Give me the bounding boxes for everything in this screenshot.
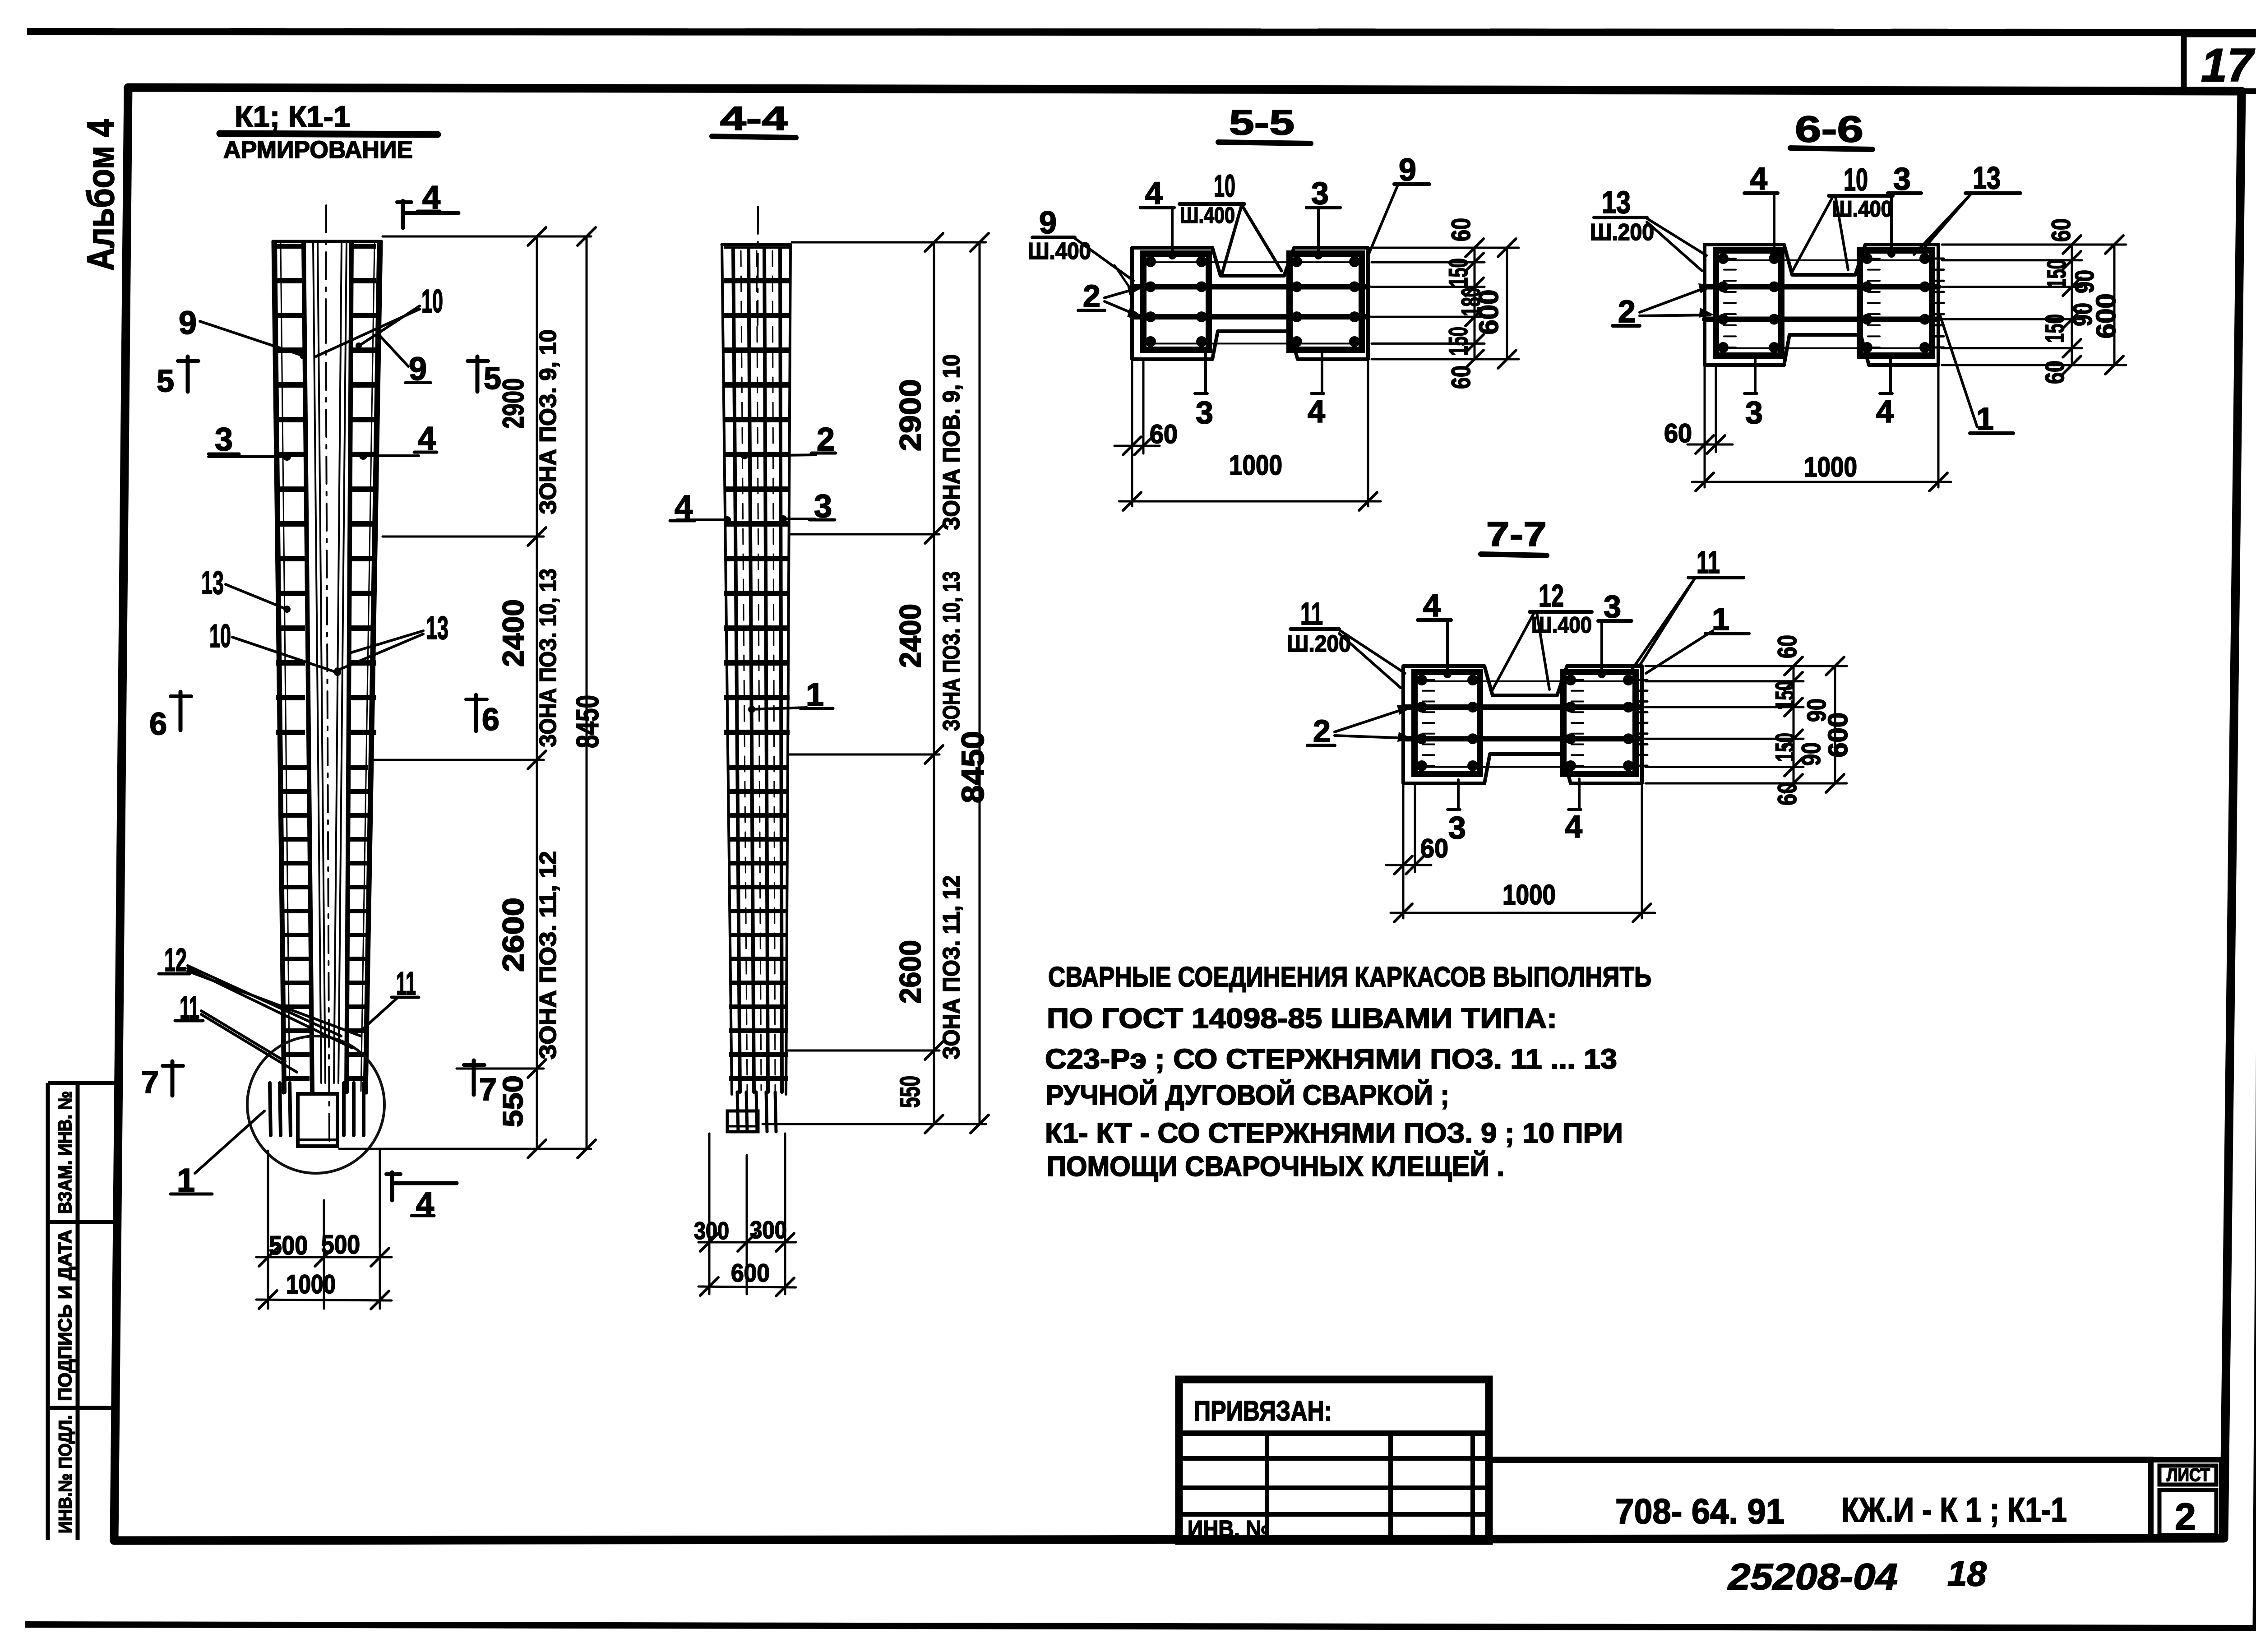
node dim-chain-K1 : dimension line 2900/2400/2600/550 <box>536 236 538 1149</box>
node dim-600 : overall 600 <box>1506 248 1508 359</box>
component stirrup-right : right stirrup <box>1860 250 1932 356</box>
wire : outer bottom border line <box>25 1624 2256 1628</box>
svg-text:9: 9 <box>179 305 197 341</box>
node dim-60-77 : cover 60 bottom left <box>1402 785 1405 918</box>
svg-text:ВЗАМ. ИНВ. №: ВЗАМ. ИНВ. № <box>54 1091 75 1214</box>
svg-text:5: 5 <box>157 363 174 398</box>
svg-text:Ш.400: Ш.400 <box>1832 196 1892 222</box>
svg-text:3: 3 <box>1196 395 1213 430</box>
svg-text:150: 150 <box>1444 258 1473 287</box>
svg-text:КЖ.И - К 1 ; К1-1: КЖ.И - К 1 ; К1-1 <box>1841 1491 2067 1529</box>
node flag-5-right : section 5 mark <box>476 356 480 392</box>
svg-text:3: 3 <box>1893 161 1911 196</box>
node rebar-dots : bar cross-sections <box>1145 256 1156 267</box>
svg-text:1000: 1000 <box>1229 450 1282 481</box>
svg-text:11: 11 <box>1697 545 1720 580</box>
node column-K1 : reinforcement elevation of column K1 <box>273 241 283 1093</box>
svg-text:13: 13 <box>201 565 224 601</box>
wire : inner longitudinal bars <box>313 243 321 1083</box>
wire : extension lines to right dims <box>1646 665 1847 667</box>
svg-text:2900: 2900 <box>496 378 530 429</box>
node 17 : page number box top-right <box>2184 34 2256 91</box>
svg-text:60: 60 <box>1420 834 1448 863</box>
svg-text:150: 150 <box>2042 259 2071 288</box>
svg-text:7-7: 7-7 <box>1486 515 1547 554</box>
svg-text:13: 13 <box>1973 160 2001 195</box>
svg-text:12: 12 <box>1539 578 1564 613</box>
node flag-4-bottom : section 4 mark bottom <box>390 1172 394 1200</box>
svg-text:60: 60 <box>1664 419 1692 448</box>
node dim-600-44 : overall width 600 <box>698 1286 796 1287</box>
svg-text:ПОДПИСЬ И ДАТА: ПОДПИСЬ И ДАТА <box>54 1230 75 1401</box>
wire : centerline 4-4 <box>758 207 758 325</box>
svg-text:4: 4 <box>1423 588 1441 623</box>
node list-box : sheet number box <box>2151 1460 2222 1539</box>
node dim-600 : overall 600 <box>1834 666 1836 783</box>
node label-3b-66 : bar 3 bottom <box>1754 358 1757 392</box>
svg-text:ЛИСТ: ЛИСТ <box>2167 1465 2210 1485</box>
node dim-1000-66 : overall width <box>1937 366 1940 487</box>
svg-text:С23-Рэ ; СО СТЕРЖНЯМИ ПОЗ. 11: С23-Рэ ; СО СТЕРЖНЯМИ ПОЗ. 11 ... 13 <box>1045 1044 1617 1075</box>
wire : outer top border line <box>27 32 2256 32</box>
node dowels : protruding bars at column base <box>270 1083 271 1135</box>
component stirrup-left : left stirrup <box>1143 254 1209 350</box>
wire : section outline <box>1132 248 1368 359</box>
svg-text:2: 2 <box>1618 294 1636 329</box>
svg-text:9: 9 <box>1399 152 1416 187</box>
node flag-7-left : section 7 mark <box>171 1061 175 1096</box>
svg-text:150: 150 <box>1771 681 1800 710</box>
svg-text:10: 10 <box>1214 168 1235 204</box>
svg-text:13: 13 <box>1602 185 1631 220</box>
svg-text:500: 500 <box>269 1231 308 1260</box>
wire : extension lines right of column <box>383 236 591 238</box>
svg-text:60: 60 <box>1447 218 1476 241</box>
svg-text:4-4: 4-4 <box>720 100 788 137</box>
svg-text:2: 2 <box>1083 278 1100 314</box>
svg-text:8450: 8450 <box>955 731 990 803</box>
node detail-circle : enlarged detail circle at base <box>247 1036 384 1173</box>
svg-text:300: 300 <box>694 1217 729 1245</box>
node dim-300-300 : base dims 4-4 <box>708 1134 711 1294</box>
svg-text:10: 10 <box>421 283 443 319</box>
node dim-chain : cover chain dims <box>2071 245 2073 365</box>
svg-text:6: 6 <box>482 702 499 737</box>
svg-text:60: 60 <box>2047 218 2076 242</box>
node dowels-44 : protruding bars at base <box>737 1092 738 1132</box>
svg-text:17: 17 <box>2201 39 2255 92</box>
svg-text:1000: 1000 <box>1502 879 1556 911</box>
node flag-4-top : section 4 mark top <box>401 201 405 228</box>
node flag-6-left : section 6 mark <box>179 692 183 730</box>
svg-text:3: 3 <box>215 421 233 458</box>
wire : dense tie hatching <box>1637 679 1647 681</box>
svg-text:3: 3 <box>1745 395 1763 430</box>
svg-text:8450: 8450 <box>570 695 605 748</box>
svg-text:ИНВ. №: ИНВ. № <box>1188 1516 1270 1542</box>
svg-text:150: 150 <box>1444 327 1473 356</box>
svg-text:60: 60 <box>2040 361 2070 384</box>
wire : dashed bars <box>741 251 747 1090</box>
svg-text:90: 90 <box>1797 742 1826 766</box>
svg-text:3: 3 <box>1604 589 1621 624</box>
svg-text:550: 550 <box>895 1076 926 1108</box>
svg-text:1: 1 <box>1712 602 1729 637</box>
wire : column centerline <box>326 205 326 316</box>
component stirrup-right : right stirrup <box>1563 672 1636 774</box>
wire : right ladder cage rails <box>350 244 376 760</box>
svg-text:60: 60 <box>1447 366 1476 389</box>
svg-text:ПОМОЩИ СВАРОЧНЫХ КЛЕЩЕЙ .: ПОМОЩИ СВАРОЧНЫХ КЛЕЩЕЙ . <box>1047 1151 1504 1182</box>
svg-text:3: 3 <box>1311 176 1329 211</box>
svg-text:СВАРНЫЕ СОЕДИНЕНИЯ КАРКАСОВ ВЫ: СВАРНЫЕ СОЕДИНЕНИЯ КАРКАСОВ ВЫПОЛНЯТЬ <box>1048 962 1651 993</box>
component stirrup-left : left stirrup <box>1716 250 1781 356</box>
svg-text:4: 4 <box>1308 394 1325 429</box>
wire : left ladder cage rails <box>276 244 305 760</box>
svg-text:11: 11 <box>1300 596 1323 631</box>
node dim-1000 : overall width dimension <box>256 1300 392 1300</box>
node label-4b-55 : bar 4 bottom <box>1321 351 1323 392</box>
svg-text:6: 6 <box>149 706 167 741</box>
svg-text:60: 60 <box>1773 782 1802 805</box>
svg-text:4: 4 <box>1565 809 1582 844</box>
node dim-600 : overall 600 <box>2113 245 2116 365</box>
svg-text:25208-04: 25208-04 <box>1727 1556 1898 1597</box>
svg-text:ЗОНА ПОЗ. 10, 13: ЗОНА ПОЗ. 10, 13 <box>938 571 965 731</box>
svg-text:2400: 2400 <box>496 599 530 667</box>
svg-text:ПРИВЯЗАН:: ПРИВЯЗАН: <box>1194 1396 1332 1427</box>
svg-text:Ш.200: Ш.200 <box>1590 219 1654 245</box>
svg-text:9: 9 <box>1039 205 1057 240</box>
svg-text:5-5: 5-5 <box>1229 102 1294 142</box>
svg-text:РУЧНОЙ ДУГОВОЙ СВАРКОЙ ;: РУЧНОЙ ДУГОВОЙ СВАРКОЙ ; <box>1046 1079 1449 1111</box>
node dim-1000-77 : overall width <box>1641 785 1643 918</box>
node column-44 : longitudinal section of column <box>722 245 732 1094</box>
wire : longitudinal bars in section <box>733 249 740 1092</box>
node label-4b-77 : bar 4 bottom <box>1578 779 1581 808</box>
svg-text:708- 64. 91: 708- 64. 91 <box>1615 1491 1784 1531</box>
svg-text:10: 10 <box>209 618 231 654</box>
svg-text:3: 3 <box>1448 810 1466 845</box>
svg-text:2: 2 <box>1313 713 1331 749</box>
node rebar-dots : bar cross-sections <box>1416 675 1427 685</box>
svg-text:ЗОНА ПОЗ. 11, 12: ЗОНА ПОЗ. 11, 12 <box>535 851 561 1060</box>
svg-text:10: 10 <box>1844 162 1868 197</box>
wire : dense tie hatching <box>1933 258 1944 260</box>
svg-text:2600: 2600 <box>893 940 927 1004</box>
svg-text:6-6: 6-6 <box>1795 109 1863 150</box>
wire : extension lines right of 4-4 <box>792 241 986 244</box>
svg-text:7: 7 <box>479 1072 497 1107</box>
svg-text:К1; К1-1: К1; К1-1 <box>235 100 350 133</box>
component stirrup-left : left stirrup <box>1415 672 1480 774</box>
node label-4b-66 : bar 4 bottom <box>1889 357 1892 392</box>
svg-text:ЗОНА ПОВ. 9, 10: ЗОНА ПОВ. 9, 10 <box>938 354 965 530</box>
svg-text:1: 1 <box>1976 401 1994 436</box>
node table-privyazan : small table <box>1179 1379 1489 1541</box>
svg-text:600: 600 <box>1474 290 1504 335</box>
node stub-44 : bottom stub <box>727 1111 758 1132</box>
svg-text:4: 4 <box>1145 176 1163 211</box>
svg-text:550: 550 <box>498 1075 529 1127</box>
node side-strip : left GOST strip table <box>46 1083 50 1540</box>
svg-text:АРМИРОВАНИЕ: АРМИРОВАНИЕ <box>223 136 413 163</box>
svg-text:2: 2 <box>2175 1495 2196 1538</box>
node dim-chain : cover chain dims <box>1474 248 1476 359</box>
svg-text:60: 60 <box>1150 420 1178 449</box>
svg-text:Альбом 4: Альбом 4 <box>79 119 122 271</box>
svg-text:2900: 2900 <box>893 379 927 451</box>
wire : outer right border line <box>2255 91 2256 1626</box>
wire : extension lines to right dims <box>1942 244 2126 246</box>
node dim-60-55 : cover 60 bottom left <box>1131 361 1133 506</box>
svg-text:90: 90 <box>2070 270 2099 293</box>
svg-text:ЗОНА ПОЗ. 9, 10: ЗОНА ПОЗ. 9, 10 <box>535 329 561 514</box>
node flag-5-left : section 5 mark <box>186 356 190 392</box>
svg-text:К1- КТ - СО СТЕРЖНЯМИ ПОЗ. 9 ;: К1- КТ - СО СТЕРЖНЯМИ ПОЗ. 9 ; 10 ПРИ <box>1045 1118 1623 1149</box>
component bars-2 : longitudinal bars pos.2 <box>1403 704 1642 710</box>
component bars-2 : longitudinal bars pos.2 <box>1705 284 1938 289</box>
svg-text:150: 150 <box>2040 314 2070 343</box>
svg-text:600: 600 <box>731 1259 770 1287</box>
node label-3b-55 : bar 3 bottom <box>1204 352 1207 392</box>
svg-text:600: 600 <box>1823 713 1853 758</box>
svg-text:300: 300 <box>750 1217 787 1244</box>
node dim-1000-55 : overall width <box>1367 361 1369 506</box>
svg-text:ПО ГОСТ 14098-85 ШВАМИ ТИПА:: ПО ГОСТ 14098-85 ШВАМИ ТИПА: <box>1047 1003 1557 1034</box>
svg-text:18: 18 <box>1947 1554 1987 1593</box>
svg-text:7: 7 <box>141 1064 159 1100</box>
svg-text:1000: 1000 <box>1804 452 1857 483</box>
svg-text:60: 60 <box>1773 635 1802 658</box>
node rebar-dots : bar cross-sections <box>1718 253 1729 264</box>
node dim-8450 : overall dimension 8450 <box>586 236 588 1149</box>
svg-text:600: 600 <box>2091 293 2121 338</box>
wire : section outline <box>1705 245 1938 365</box>
svg-text:ЗОНА ПОЗ. 11, 12: ЗОНА ПОЗ. 11, 12 <box>938 875 965 1060</box>
node flag-6-right : section 6 mark <box>474 695 478 731</box>
svg-text:1000: 1000 <box>286 1270 336 1299</box>
wire : section outline <box>1403 666 1642 783</box>
svg-text:500: 500 <box>321 1230 360 1259</box>
svg-text:2600: 2600 <box>496 898 530 972</box>
node title-bar : main title strip <box>1489 1457 2152 1463</box>
node dim-chain : cover chain dims <box>1793 666 1795 783</box>
svg-text:ИНВ.№ ПОДЛ.: ИНВ.№ ПОДЛ. <box>55 1415 75 1533</box>
node dim-60-66 : cover 60 bottom left <box>1704 366 1706 487</box>
svg-text:13: 13 <box>426 610 448 646</box>
svg-text:150: 150 <box>1771 733 1800 762</box>
svg-text:2400: 2400 <box>893 604 927 668</box>
node dim-500-500 : bottom dimensions <box>267 1151 269 1309</box>
wire : extension lines to right dims <box>1372 247 1519 249</box>
node label-3b-77 : bar 3 bottom <box>1457 780 1460 808</box>
node dim-8450-44 : overall dimension 8450 <box>979 242 981 1124</box>
node flag-7-right : section 7 mark <box>472 1060 476 1095</box>
component stirrup-right : right stirrup <box>1290 254 1362 350</box>
svg-text:4: 4 <box>1750 161 1767 196</box>
component bars-2 : longitudinal bars pos.2 <box>1132 284 1368 289</box>
svg-text:Ш.400: Ш.400 <box>1180 203 1235 228</box>
node dim-chain-44 : dimension line 2900/2400/2600/550 <box>933 242 935 1124</box>
svg-text:ЗОНА ПОЗ. 10, 13: ЗОНА ПОЗ. 10, 13 <box>535 569 561 747</box>
svg-text:4: 4 <box>1876 394 1894 429</box>
node stub : bottom stub of column <box>298 1094 337 1146</box>
